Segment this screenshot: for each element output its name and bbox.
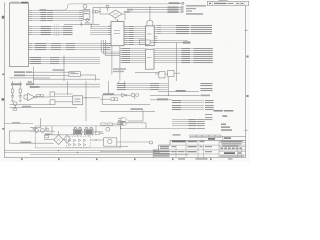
wire to U5 [120, 50, 145, 52]
pin name label [122, 56, 130, 57]
wire vertical [118, 81, 120, 83]
J1 pin number [29, 12, 32, 13]
wire [25, 74, 69, 76]
wire [172, 119, 205, 121]
wire [121, 128, 205, 130]
net name label [35, 43, 46, 44]
net name label [189, 128, 197, 129]
cell text [172, 151, 176, 152]
pin label [79, 10, 83, 11]
wire [135, 71, 160, 73]
wire address bus to U2 [90, 28, 111, 30]
cell text [188, 151, 197, 152]
resistor R3 [37, 95, 40, 97]
transistor Q6 [41, 129, 45, 133]
diode CR10 [84, 143, 86, 145]
wire data bus [28, 20, 80, 22]
wire long [150, 94, 200, 96]
net name label [66, 47, 75, 48]
wire [9, 130, 32, 132]
wire [95, 11, 97, 13]
net name label [31, 63, 41, 64]
net label +5V [11, 83, 22, 85]
wire [150, 99, 172, 101]
dark cell above title block [208, 138, 215, 140]
U2 part number text [114, 33, 120, 34]
power module enclosure box [35, 126, 120, 148]
wire drop [45, 126, 47, 130]
wire vertical [120, 125, 122, 128]
transistor Q1 [13, 102, 17, 106]
wire memory control [172, 107, 204, 109]
wire [24, 98, 28, 100]
net name label right [205, 117, 212, 118]
pin name label [122, 50, 130, 51]
wire [55, 93, 73, 95]
wire U2 to U4 [124, 44, 145, 46]
net name text [191, 25, 212, 26]
wire memory control [172, 102, 204, 104]
wire [9, 142, 53, 144]
net name label [182, 52, 191, 53]
net name label [129, 34, 134, 35]
note text [221, 129, 232, 131]
net name label [50, 61, 59, 62]
revision letter A [209, 3, 211, 4]
buffer bubble E1 [106, 5, 109, 8]
zone letter C left border [2, 74, 4, 76]
transistor Q7 [106, 127, 110, 131]
cell text [205, 146, 212, 147]
U4 designator text [147, 34, 152, 35]
net name label [182, 60, 191, 61]
net name label [129, 26, 134, 27]
revision block dividers [213, 1, 244, 5]
U10 text [75, 101, 81, 102]
J1 pin number [29, 59, 32, 60]
revision block [207, 1, 248, 5]
pin label [79, 14, 83, 15]
below border note [196, 158, 208, 159]
zone letter C right border [246, 56, 248, 58]
ground symbol [11, 97, 14, 103]
cell text [200, 146, 203, 147]
net name text [194, 58, 213, 59]
wire [90, 24, 92, 28]
wire [30, 130, 55, 132]
net name label [41, 16, 47, 17]
pin name label [122, 60, 130, 61]
U7 text [71, 73, 79, 74]
wire to edge connector [131, 11, 181, 13]
pin number label [125, 28, 127, 29]
arrow into U2 top [117, 20, 119, 22]
net name label right [205, 114, 212, 115]
wire U5 output [154, 50, 213, 52]
wire title block top tie [217, 135, 246, 137]
J1 reference text [10, 2, 20, 3]
wire U4 output [154, 31, 196, 33]
net name label [66, 43, 75, 44]
wire to U5 [120, 52, 145, 54]
U4 pin stub [154, 40, 157, 42]
net name label [124, 11, 131, 13]
resistor R9 [111, 98, 114, 101]
net name label [129, 42, 134, 43]
junction [63, 57, 64, 58]
wire [95, 75, 97, 81]
inverter output bubble [35, 96, 37, 98]
wire U4 output [154, 29, 196, 31]
wire [117, 141, 150, 143]
capacitor C2 [19, 96, 22, 97]
wire control bus [28, 47, 110, 49]
net name label right [205, 119, 212, 120]
margin note text [186, 10, 192, 11]
wire [93, 131, 103, 133]
wire [24, 94, 28, 96]
title block outline [153, 140, 246, 157]
buffer U6 [139, 40, 150, 44]
net name label [47, 12, 53, 13]
wire bottom rail [30, 154, 189, 156]
wire [113, 123, 118, 125]
wire [103, 53, 120, 55]
wire [77, 135, 79, 136]
wire status bus [28, 63, 100, 65]
net name label [189, 123, 197, 124]
zone letter B right border [246, 95, 248, 97]
gate output bubble [125, 94, 127, 96]
net name label [41, 14, 47, 15]
pin name label [122, 52, 130, 53]
PROM U4 [145, 26, 154, 46]
wire control bus [28, 49, 110, 51]
U10 designator text [75, 99, 81, 100]
wire U2 to U4 [124, 38, 145, 40]
net name label right [200, 90, 212, 91]
net name label [35, 47, 46, 48]
J1 pin number [29, 20, 32, 21]
note text [221, 124, 226, 126]
net name label [51, 47, 61, 48]
wire to connector pin [180, 2, 182, 5]
oscillator module U8 [83, 10, 90, 20]
wire vertical [167, 81, 169, 95]
pin name label [122, 48, 130, 49]
wire U5 output [154, 60, 213, 62]
net name label [47, 10, 53, 11]
wire vertical [33, 67, 35, 85]
U4 pin stub [154, 38, 157, 40]
gate U11 [159, 72, 165, 78]
wire [99, 132, 103, 134]
net name label [176, 33, 189, 34]
wire vertical [104, 40, 106, 56]
zone number 4 bottom border [96, 158, 98, 160]
net label [20, 142, 31, 144]
revision date text [228, 3, 234, 4]
zone tick right border [245, 29, 248, 32]
timer U10 [73, 96, 83, 105]
net name label [103, 93, 114, 95]
wire [36, 96, 50, 98]
L2 winding fill [85, 130, 92, 134]
wire vertical [222, 136, 224, 139]
note text [131, 108, 144, 110]
application block cells [190, 135, 221, 138]
wire [102, 94, 121, 96]
net name text [194, 56, 213, 57]
wire [19, 81, 21, 89]
wire gate input [118, 118, 121, 120]
net name label [63, 34, 72, 35]
zone letter A left border [2, 128, 4, 130]
terminal circle L2 a [85, 127, 87, 129]
wire memory control [172, 109, 204, 111]
sheet border bottom [4, 157, 245, 159]
U5 designator text [147, 57, 152, 58]
net name text [191, 31, 212, 32]
junction [33, 84, 34, 85]
below border note [178, 158, 185, 159]
NAND gate G1 above U4 [147, 20, 153, 26]
net name label [41, 26, 51, 27]
wire [172, 121, 205, 123]
net name label [129, 38, 134, 39]
net name label [51, 43, 61, 44]
wire vertical [99, 7, 101, 14]
wire [83, 97, 100, 99]
net name label [31, 61, 41, 62]
wire memory control [172, 100, 204, 102]
wire [80, 22, 82, 27]
pin number label [125, 26, 127, 27]
wire [117, 83, 169, 85]
wire vertical [39, 118, 41, 129]
net name label [104, 43, 111, 44]
net name label [189, 121, 197, 122]
sheet note text [173, 134, 181, 135]
wire [84, 8, 86, 9]
title text line [223, 145, 239, 146]
wire [55, 101, 73, 103]
wire [150, 42, 188, 44]
net name label [104, 47, 111, 48]
net name text [194, 48, 213, 49]
zone number 3 bottom border [134, 158, 136, 160]
net name text [194, 60, 213, 61]
net name label [176, 27, 189, 28]
net name label [197, 119, 205, 120]
net name label [176, 31, 189, 32]
title block header dark text [172, 141, 186, 143]
net name label [14, 75, 25, 77]
wire U2 to U4 [124, 36, 145, 38]
net name label [205, 107, 214, 108]
wire [88, 135, 90, 136]
approval row text [154, 155, 170, 156]
U2 left pin [108, 25, 111, 27]
net name label right [200, 95, 210, 97]
wire vertical [124, 81, 126, 87]
title block cell text [200, 141, 205, 142]
zone number 6 bottom border [21, 158, 23, 160]
net name label [182, 50, 191, 51]
bus wire vertical [111, 46, 113, 75]
wire [117, 145, 128, 147]
J1 pin number [29, 63, 32, 64]
net name label [197, 128, 205, 129]
wire [63, 139, 66, 141]
zone number 1 bottom border [210, 158, 212, 160]
wire clock in [100, 13, 109, 15]
note QTY [222, 115, 227, 117]
PROM note text [113, 68, 126, 69]
connector pin P2 [150, 141, 153, 144]
net name label [51, 49, 61, 50]
wire address bus to U2 [90, 30, 111, 32]
wire gate input [149, 7, 151, 20]
net name label [117, 85, 126, 86]
net name text [194, 50, 213, 51]
wire [117, 87, 169, 89]
application block text [190, 135, 221, 137]
wire [123, 122, 146, 124]
wire address bus [28, 26, 73, 28]
wire address bus [28, 34, 73, 36]
inductor L1 [73, 129, 81, 135]
resistor R19 [46, 128, 49, 130]
buffer U7 [69, 72, 80, 77]
net name label right [200, 85, 212, 86]
wire vertical [107, 81, 109, 95]
wire to U5 [120, 58, 145, 60]
pin number label [125, 44, 127, 45]
net name label [47, 20, 53, 21]
revision approved text [237, 3, 239, 4]
resistor R2 [19, 89, 21, 93]
wire vertical [85, 81, 87, 121]
wire oscillator output [64, 23, 100, 25]
resistor R15 [101, 123, 106, 125]
margin note text [186, 13, 203, 15]
pin name label [122, 58, 130, 59]
net label [26, 83, 33, 85]
inverter gate diamond [85, 18, 89, 21]
net name label [182, 56, 191, 57]
zone tick right border [245, 129, 248, 132]
note PROM-RAM [214, 110, 223, 112]
net name text [191, 33, 212, 34]
wire rail [40, 86, 100, 88]
U2 designator text [114, 30, 120, 31]
U4 pin stub [154, 42, 157, 44]
pin number label [157, 31, 161, 32]
net name label [47, 16, 53, 17]
wire U2 to U4 [124, 28, 145, 30]
inductor L2 [85, 129, 93, 135]
dark cell above title block [224, 137, 231, 139]
J1 pin number [29, 32, 32, 33]
net name label [182, 54, 191, 55]
net label [30, 86, 40, 88]
wire memory control [172, 105, 204, 107]
wire [9, 104, 50, 106]
wire U2 to U4 [124, 32, 145, 34]
net name text [191, 27, 212, 28]
wire address bus [28, 32, 73, 34]
wire to edge connector [134, 9, 181, 11]
wire U2 to U4 [124, 40, 145, 42]
J1 pin number [29, 57, 32, 58]
net name label [41, 32, 51, 33]
net name label [182, 58, 191, 59]
net name label [172, 100, 181, 101]
wire data bus [28, 18, 80, 20]
net name label [104, 49, 111, 50]
net name label [197, 123, 205, 124]
J1 pin number [29, 49, 32, 50]
terminal circle [120, 122, 122, 124]
junction [77, 152, 78, 153]
materials row small cells [221, 148, 243, 150]
wire address bus [28, 28, 73, 30]
net name text [194, 52, 213, 53]
wire to U5 [120, 62, 145, 64]
terminal circle L1 a [74, 127, 76, 129]
sheet border left [3, 3, 5, 158]
net name label [66, 49, 75, 50]
diode CR7 [69, 143, 71, 145]
wire [172, 123, 205, 125]
wire [158, 90, 199, 92]
wire [150, 40, 188, 42]
wire to U5 [120, 60, 145, 62]
wire [23, 95, 25, 99]
pin number label [125, 40, 127, 41]
pin number label [157, 25, 161, 26]
wire address bus to U2 [90, 26, 111, 28]
net name label [182, 48, 191, 49]
net label [28, 81, 32, 83]
net name label [172, 109, 181, 110]
resistor R4 [41, 95, 44, 97]
connector J1 [9, 3, 28, 67]
pin label [79, 16, 83, 17]
wire drop [51, 126, 53, 135]
wire to U5 [120, 54, 145, 56]
cell text [188, 146, 197, 147]
wire [30, 127, 40, 129]
wire [98, 11, 101, 13]
L1 winding fill [74, 130, 81, 134]
net name label [129, 44, 134, 45]
wire [134, 97, 136, 99]
resistor R16 [108, 123, 113, 125]
wire data bus [28, 16, 80, 18]
net name label [150, 89, 159, 90]
fuse F1 [45, 136, 49, 138]
wire [32, 71, 75, 73]
J1 pin number [29, 43, 32, 44]
junction [91, 24, 92, 25]
U2 left pin [108, 33, 111, 35]
pin number label [125, 42, 127, 43]
wire U5 output [154, 58, 213, 60]
net name label [117, 83, 126, 84]
net name label [129, 30, 134, 31]
